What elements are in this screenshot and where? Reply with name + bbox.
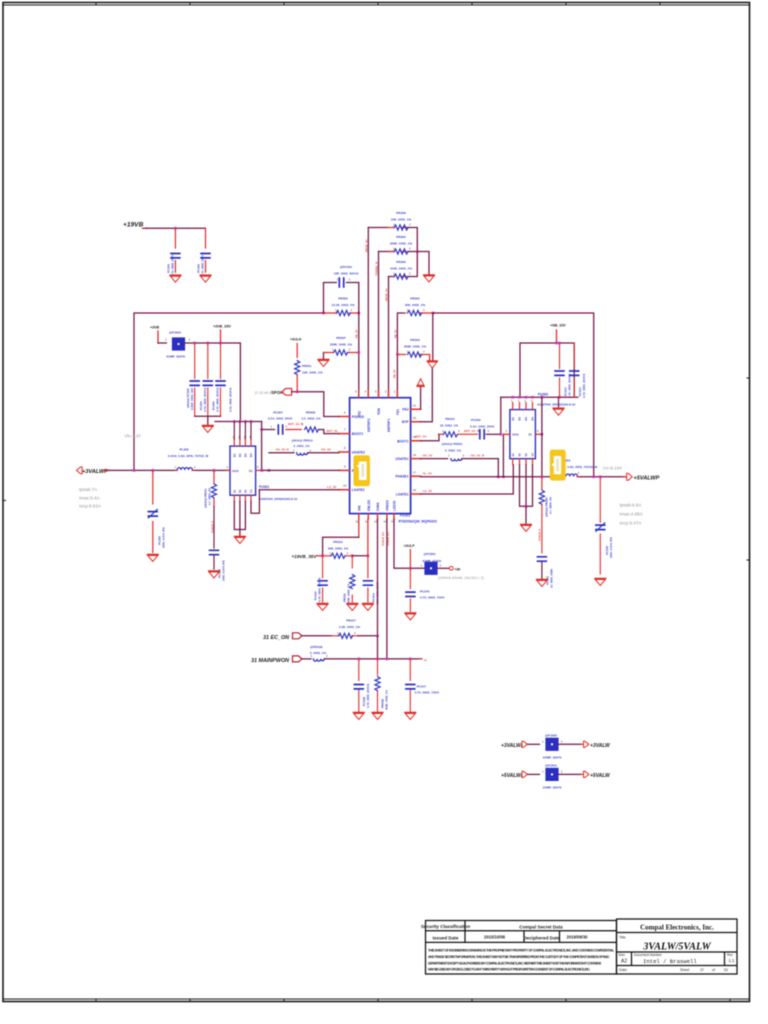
- svg-text:D1: D1: [249, 469, 253, 473]
- ground: [424, 275, 435, 282]
- capacitor PC320: [358, 659, 360, 712]
- junction: [152, 469, 155, 472]
- svg-text:3VALW_EC: 3VALW_EC: [381, 532, 385, 546]
- svg-text:PC324: PC324: [166, 264, 170, 273]
- LGATE2 wire: [259, 489, 339, 491]
- svg-text:@PJ301: @PJ301: [545, 763, 557, 767]
- wire pin21 riser to power arrow: [420, 387, 422, 409]
- junction: [541, 396, 544, 399]
- junction: [358, 312, 361, 315]
- svg-text:FB1: FB1: [396, 409, 400, 415]
- wire pin stub: [397, 355, 429, 361]
- svg-text:THIS SHEET OF ENGINEERING DRAW: THIS SHEET OF ENGINEERING DRAWING IS THE…: [428, 949, 614, 953]
- ground: [318, 360, 329, 367]
- svg-text:300K_0402_1%: 300K_0402_1%: [404, 344, 426, 348]
- svg-text:UGATE1: UGATE1: [395, 457, 408, 461]
- svg-text:S2: S2: [238, 489, 242, 493]
- wire pin stub: [392, 276, 407, 278]
- wire: [528, 743, 540, 745]
- svg-text:LG_5V: LG_5V: [423, 489, 433, 493]
- svg-text:PC325: PC325: [196, 264, 200, 273]
- wire pin stub: [581, 743, 583, 745]
- wire pin stub: [176, 469, 195, 471]
- ground: [317, 604, 328, 611]
- svg-text:PR310: PR310: [445, 417, 455, 421]
- svg-text:PR301: PR301: [302, 364, 312, 368]
- left pin stubs: [339, 417, 350, 490]
- svg-text:20: 20: [413, 416, 417, 420]
- svg-text:PR307: PR307: [336, 336, 346, 340]
- resistor PR306: [389, 252, 418, 277]
- wire: [378, 252, 380, 398]
- svg-text:@PJ303: @PJ303: [169, 331, 181, 335]
- svg-text:+3ULP: +3ULP: [404, 544, 416, 548]
- svg-text:ENTRIP1: ENTRIP1: [387, 418, 391, 432]
- junction: [296, 391, 299, 394]
- svg-text:PA2: PA2: [402, 408, 408, 412]
- svg-text:UG_33: UG_33: [321, 448, 331, 452]
- svg-text:4.7U_0805_25V4 K: 4.7U_0805_25V4 K: [366, 683, 370, 708]
- svg-text:1: 1: [448, 453, 450, 457]
- junction: [358, 351, 361, 354]
- wire 3.3V switch rail: [109, 469, 230, 471]
- wire PU302 source join to ground: [234, 501, 245, 529]
- capacitor PC301b: [213, 507, 215, 570]
- svg-text:FB_3V: FB_3V: [354, 329, 358, 338]
- wire pin stub: [556, 330, 558, 343]
- svg-text:@KIA@ PR321: @KIA@ PR321: [442, 442, 463, 446]
- svg-text:100U_6.3V4_P/S: 100U_6.3V4_P/S: [222, 560, 226, 581]
- power flag down-triangle: [427, 361, 437, 368]
- wire: [438, 567, 449, 569]
- svg-text:9: 9: [344, 464, 346, 468]
- capacitor PC314: [573, 343, 575, 397]
- svg-text:1: 1: [332, 348, 334, 352]
- svg-text:402K_0402_1%: 402K_0402_1%: [385, 689, 389, 710]
- svg-text:4.7_0805_5%: 4.7_0805_5%: [208, 487, 212, 505]
- wire pin stub: [296, 375, 298, 392]
- svg-text:31 EC_ON: 31 EC_ON: [263, 635, 289, 641]
- svg-text:Rev: Rev: [727, 953, 733, 957]
- ground: [170, 275, 181, 282]
- svg-text:2: 2: [463, 453, 465, 457]
- svg-text:PR308: PR308: [396, 211, 406, 215]
- svg-text:1: 1: [175, 465, 177, 469]
- svg-text:PR315: PR315: [333, 540, 343, 544]
- annotation Ipeak: [79, 487, 102, 509]
- annotation Ipeak right: [620, 503, 644, 526]
- wire pin stub: [561, 476, 581, 478]
- ground: [200, 275, 211, 282]
- capacitor PC316 bulk output: [599, 477, 601, 574]
- capacitor PC376: [409, 568, 411, 611]
- title block right table: [617, 919, 738, 974]
- svg-text:PR303: PR303: [410, 338, 420, 342]
- svg-text:1: 1: [442, 429, 444, 433]
- svg-text:+3ULN: +3ULN: [290, 338, 302, 342]
- svg-text:37: 37: [700, 968, 704, 972]
- svg-text:PGOOD: PGOOD: [352, 415, 365, 419]
- svg-text:30K_0402_1%: 30K_0402_1%: [405, 303, 426, 307]
- svg-text:0.1U_0402_25V6: 0.1U_0402_25V6: [268, 417, 292, 421]
- svg-text:PC300: PC300: [158, 536, 162, 545]
- svg-text:PU302: PU302: [259, 485, 269, 489]
- svg-text:10K_0402_1%: 10K_0402_1%: [302, 370, 323, 374]
- svg-text:(100mA,40mils ,Via NO,= 2): (100mA,40mils ,Via NO,= 2): [438, 576, 484, 580]
- ground: [354, 713, 365, 720]
- svg-text:2: 2: [561, 739, 563, 743]
- wire +19VB rail: [143, 227, 147, 229]
- svg-text:10: 10: [343, 484, 347, 488]
- svg-text:4.7U_0805_25V4 K: 4.7U_0805_25V4 K: [567, 373, 571, 398]
- wire pin15 drop to LDO jumper row: [394, 519, 424, 568]
- svg-text:BOOT2: BOOT2: [352, 432, 364, 436]
- junction: [213, 469, 216, 472]
- svg-text:17: 17: [413, 470, 417, 474]
- junction: [502, 476, 505, 479]
- ground: [148, 555, 159, 562]
- svg-text:BST_5V: BST_5V: [415, 435, 426, 439]
- svg-text:AON7504_DFN2X3X0.8-10: AON7504_DFN2X3X0.8-10: [537, 403, 575, 407]
- wire pin stub: [584, 771, 589, 777]
- svg-text:PU301: PU301: [400, 514, 410, 518]
- svg-text:Sheet: Sheet: [680, 968, 689, 972]
- wire 3VB bus: [185, 343, 240, 422]
- svg-text:Iocp:8.62A: Iocp:8.62A: [79, 504, 102, 509]
- junction: [432, 312, 435, 315]
- junction: [239, 420, 242, 423]
- svg-text:UG_5V_R: UG_5V_R: [471, 453, 486, 457]
- resistor PR307 lower divider: [323, 353, 325, 360]
- right pin stub: [256, 469, 263, 471]
- junction: [558, 342, 561, 345]
- junction: [322, 312, 325, 315]
- svg-text:JUMP_62070: JUMP_62070: [543, 755, 562, 759]
- svg-text:D4: D4: [531, 417, 535, 421]
- svg-text:5: 5: [227, 465, 229, 469]
- svg-text:6: 6: [344, 411, 346, 415]
- svg-text:LDO33: LDO33: [393, 500, 397, 511]
- svg-text:Ipeak:6.6A: Ipeak:6.6A: [620, 503, 643, 508]
- svg-text:1: 1: [337, 278, 339, 282]
- wire pin stub: [535, 433, 542, 435]
- svg-text:+5VALWP: +5VALWP: [501, 773, 525, 779]
- wire pin20 riser: [421, 368, 433, 421]
- svg-text:PC317: PC317: [417, 685, 427, 689]
- junction: [409, 567, 412, 570]
- left pin stub: [226, 469, 230, 471]
- svg-text:D1: D1: [529, 433, 533, 437]
- svg-text:10P_0402_50V4J: 10P_0402_50V4J: [334, 271, 359, 275]
- svg-text:220U_6.3V4_P/S: 220U_6.3V4_P/S: [162, 527, 166, 548]
- svg-text:2: 2: [409, 272, 411, 276]
- svg-text:4.7U_0805_25V4 K: 4.7U_0805_25V4 K: [318, 577, 322, 602]
- svg-text:31 MAINPWON: 31 MAINPWON: [251, 658, 289, 664]
- svg-text:Intel / Braswell: Intel / Braswell: [643, 958, 697, 965]
- capacitor PC304: [207, 343, 209, 416]
- svg-text:+NB_33V: +NB_33V: [550, 324, 566, 328]
- node junction: [174, 227, 177, 230]
- highlight annotation (yellow) on PL301: [550, 450, 566, 481]
- resistor PR317: [332, 635, 359, 637]
- wire PU302 gate bus: [215, 421, 262, 423]
- wire pin stub: [457, 433, 477, 435]
- wire BST tap riser: [261, 422, 263, 471]
- svg-text:4.7U_0805_25V4 K: 4.7U_0805_25V4 K: [582, 373, 586, 398]
- wire pin stub: [377, 659, 379, 712]
- svg-text:G1: G1: [531, 452, 535, 456]
- svg-text:VREG5: VREG5: [385, 500, 389, 511]
- junction: [268, 469, 271, 472]
- svg-text:of: of: [712, 968, 715, 972]
- wire pin stub: [623, 476, 627, 478]
- svg-text:TONSEL_R: TONSEL_R: [375, 262, 379, 276]
- svg-text:1: 1: [165, 338, 167, 342]
- svg-text:220U_6.3V4_P/S: 220U_6.3V4_P/S: [609, 537, 613, 558]
- resistor PR302 upper: [404, 312, 433, 314]
- ground: [203, 426, 214, 433]
- wire UG corner to phase row: [497, 459, 499, 477]
- svg-text:VIN: VIN: [357, 505, 361, 511]
- junction: [376, 635, 379, 638]
- wire pin12 drop: [367, 519, 369, 556]
- svg-text:8: 8: [537, 429, 539, 433]
- svg-text:18: 18: [413, 453, 417, 457]
- svg-text:37.3Z.AV.0: 37.3Z.AV.0: [255, 391, 272, 395]
- resistor PR322 snubber: [541, 476, 544, 479]
- svg-text:1: 1: [271, 425, 273, 429]
- svg-text:JUMP_62029: JUMP_62029: [422, 559, 441, 563]
- ground: [595, 579, 606, 586]
- svg-text:PC309: PC309: [471, 418, 481, 422]
- svg-text:Size: Size: [619, 953, 626, 957]
- junction: [525, 505, 528, 508]
- svg-text:D3: D3: [244, 453, 248, 457]
- svg-text:10K_0402_1%: 10K_0402_1%: [391, 217, 412, 221]
- wire LGATE return loop: [251, 490, 259, 514]
- svg-text:2: 2: [326, 654, 328, 658]
- svg-text:ENLDO: ENLDO: [367, 499, 371, 511]
- svg-text:D1: D1: [511, 417, 515, 421]
- capacitor PC324: [174, 228, 176, 272]
- svg-text:4.7U_0805_25V4 K: 4.7U_0805_25V4 K: [216, 387, 220, 412]
- wire pin stub: [388, 227, 407, 229]
- svg-text:PC307: PC307: [273, 410, 283, 414]
- junction: [558, 396, 561, 399]
- svg-text:UG_33_R: UG_33_R: [276, 448, 290, 452]
- svg-text:Date:: Date:: [619, 968, 628, 972]
- svg-text:FB_5V: FB_5V: [392, 369, 396, 378]
- LGATE1 wire: [421, 465, 514, 494]
- resistor PR319: [377, 636, 379, 659]
- resistor PR303 lower: [396, 353, 399, 356]
- svg-text:2: 2: [385, 390, 387, 394]
- svg-text:+19VB: +19VB: [123, 222, 144, 229]
- bottom pin stubs: [359, 514, 394, 520]
- svg-text:0.1U_0402_25V6: 0.1U_0402_25V6: [470, 425, 494, 429]
- svg-text:ENTRIP2: ENTRIP2: [367, 418, 371, 432]
- junction: [497, 476, 500, 479]
- svg-text:1: 1: [293, 448, 295, 452]
- resistor PR316: [351, 556, 353, 602]
- junction: [518, 396, 521, 399]
- svg-text:4.7U_0603_Y5V0: 4.7U_0603_Y5V0: [420, 596, 445, 600]
- junction: [541, 433, 544, 436]
- wire: [239, 530, 241, 536]
- svg-text:JUMP_62079: JUMP_62079: [166, 355, 185, 359]
- svg-text:@PJ300: @PJ300: [545, 733, 557, 737]
- svg-text:+3VB: +3VB: [150, 326, 159, 330]
- svg-text:UG_5V: UG_5V: [423, 453, 433, 457]
- junction: [260, 428, 263, 431]
- junction: [358, 658, 361, 661]
- junction: [531, 396, 534, 399]
- wire feedback rail from +3VALWP riser: [134, 313, 324, 470]
- ground: [537, 580, 548, 587]
- junction: [409, 658, 412, 661]
- svg-text:2: 2: [488, 429, 490, 433]
- svg-text:3VALW/5VALW: 3VALW/5VALW: [642, 942, 711, 953]
- svg-text:+3VALWP: +3VALWP: [501, 743, 525, 749]
- resistor PR300: [324, 312, 359, 314]
- svg-text:33_0402_1%: 33_0402_1%: [440, 424, 458, 428]
- svg-text:S3: S3: [524, 453, 528, 457]
- ground: [405, 713, 416, 720]
- junction: [207, 342, 210, 345]
- wire pin stub: [286, 429, 301, 431]
- svg-text:TON: TON: [377, 408, 381, 415]
- svg-text:4.7U_0805_25V4 K: 4.7U_0805_25V4 K: [200, 252, 204, 276]
- svg-text:1: 1: [542, 769, 544, 773]
- wire: [367, 228, 369, 398]
- svg-text:10/11: 10/11: [232, 469, 239, 473]
- svg-text:0_0402_1%: 0_0402_1%: [310, 651, 326, 655]
- highlight annotation (yellow) on PU301: [354, 455, 370, 486]
- svg-text:@PR31B: @PR31B: [310, 645, 323, 649]
- svg-text:2: 2: [349, 348, 351, 352]
- svg-text:PR317: PR317: [346, 619, 356, 623]
- svg-text:Vo=5.14V: Vo=5.14V: [603, 465, 622, 470]
- svg-text:4.7U_0805_25V4 K: 4.7U_0805_25V4 K: [229, 387, 233, 412]
- svg-text:Imax:5.4A: Imax:5.4A: [79, 495, 101, 500]
- svg-text:PR306: PR306: [396, 260, 406, 264]
- svg-text:5VALW_F: 5VALW_F: [537, 528, 541, 541]
- capacitor @PC301 bypass loop: [324, 283, 359, 314]
- svg-text:2: 2: [349, 278, 351, 282]
- resistor PR308: [368, 228, 417, 252]
- wire +5VALWP output: [581, 476, 623, 478]
- junction: [193, 342, 196, 345]
- wire switch-node drop: [502, 434, 504, 477]
- wire pin stub: [296, 344, 298, 358]
- svg-text:1U_0603_X5R0: 1U_0603_X5R0: [549, 568, 553, 588]
- UGATE2 chain: resistor PR313: [269, 452, 294, 454]
- svg-text:2: 2: [347, 551, 349, 555]
- svg-text:2: 2: [423, 350, 425, 354]
- top pin stubs: [359, 391, 398, 398]
- jumper @PJ302: [424, 562, 437, 575]
- svg-text:D1: D1: [233, 453, 237, 457]
- wire: [319, 430, 339, 434]
- svg-text:7: 7: [344, 428, 346, 432]
- wire: [559, 743, 581, 745]
- junction: [244, 420, 247, 423]
- svg-text:Vh=1.47: Vh=1.47: [124, 434, 141, 439]
- junction: [386, 658, 389, 661]
- junction: [376, 658, 379, 661]
- svg-text:1: 1: [542, 739, 544, 743]
- wire pin stub: [541, 477, 543, 489]
- svg-text:PC316: PC316: [605, 546, 609, 555]
- wire pin stub: [389, 251, 407, 253]
- UGATE1 chain: resistor PR321: [421, 458, 448, 460]
- svg-text:Document Number: Document Number: [634, 953, 663, 957]
- BOOT1 chain: resistor PR310 + capacitor PC309: [421, 434, 439, 441]
- junction: [599, 476, 602, 479]
- junction: [525, 396, 528, 399]
- inductor PL300: [177, 468, 192, 470]
- svg-text:PR309: PR309: [306, 410, 316, 414]
- wire: [525, 506, 527, 524]
- wire: [462, 458, 498, 460]
- wire pin stub: [324, 352, 359, 354]
- top pin stubs: [234, 439, 251, 446]
- svg-text:JUMP_62070: JUMP_62070: [543, 785, 562, 789]
- svg-text:4.7_0805_5%: 4.7_0805_5%: [549, 496, 553, 514]
- svg-text:21: 21: [413, 404, 417, 408]
- svg-text:DEPARTMENT EXCEPT AS AUTHORIZE: DEPARTMENT EXCEPT AS AUTHORIZED BY COMPA…: [428, 961, 602, 965]
- wire: [358, 635, 378, 637]
- svg-text:PROK_5V: PROK_5V: [385, 288, 389, 301]
- wire: [501, 343, 578, 397]
- svg-text:CH8A: CH8A: [376, 502, 380, 511]
- jumper @PJ300: [545, 738, 558, 751]
- svg-text:0_0402_1%: 0_0402_1%: [294, 444, 310, 448]
- wire: [388, 277, 390, 398]
- svg-text:@KIA@ PR313: @KIA@ PR313: [292, 439, 313, 443]
- ground: [521, 525, 532, 532]
- svg-text:1.1: 1.1: [729, 958, 735, 963]
- capacitor PC318: [322, 556, 324, 602]
- svg-text:S1: S1: [511, 453, 515, 457]
- capacitor PC315: [538, 557, 547, 561]
- svg-text:Compal Electronics, Inc.: Compal Electronics, Inc.: [640, 924, 714, 932]
- capacitor PC305: [220, 343, 222, 416]
- wire pin stub: [522, 741, 527, 747]
- svg-text:110K_0402_1%: 110K_0402_1%: [390, 266, 412, 270]
- ground on gate bus: [558, 397, 560, 407]
- wire: [308, 452, 339, 454]
- wire pin stub: [439, 433, 443, 435]
- svg-text:G1: G1: [249, 489, 253, 493]
- wire: [302, 658, 311, 660]
- net flag +3VALWP: [77, 467, 83, 474]
- wire cap bottom bus: [195, 416, 221, 424]
- svg-text:D4: D4: [249, 453, 253, 457]
- svg-text:RT8205AZQW_WQFN3X3: RT8205AZQW_WQFN3X3: [399, 520, 437, 524]
- svg-text:Title: Title: [619, 936, 626, 940]
- jumper @PJ301: [545, 768, 558, 781]
- junction: [233, 420, 236, 423]
- svg-text:+3K: +3K: [455, 567, 462, 571]
- svg-text:12.1K_0402_1%: 12.1K_0402_1%: [331, 303, 354, 307]
- junction: [511, 396, 514, 399]
- wire PU300 drain riser: [541, 397, 543, 477]
- capacitor PC300 bulk: [152, 470, 154, 552]
- ground: [235, 537, 246, 544]
- svg-text:LGATE1: LGATE1: [396, 493, 409, 497]
- power flag up: [417, 379, 424, 387]
